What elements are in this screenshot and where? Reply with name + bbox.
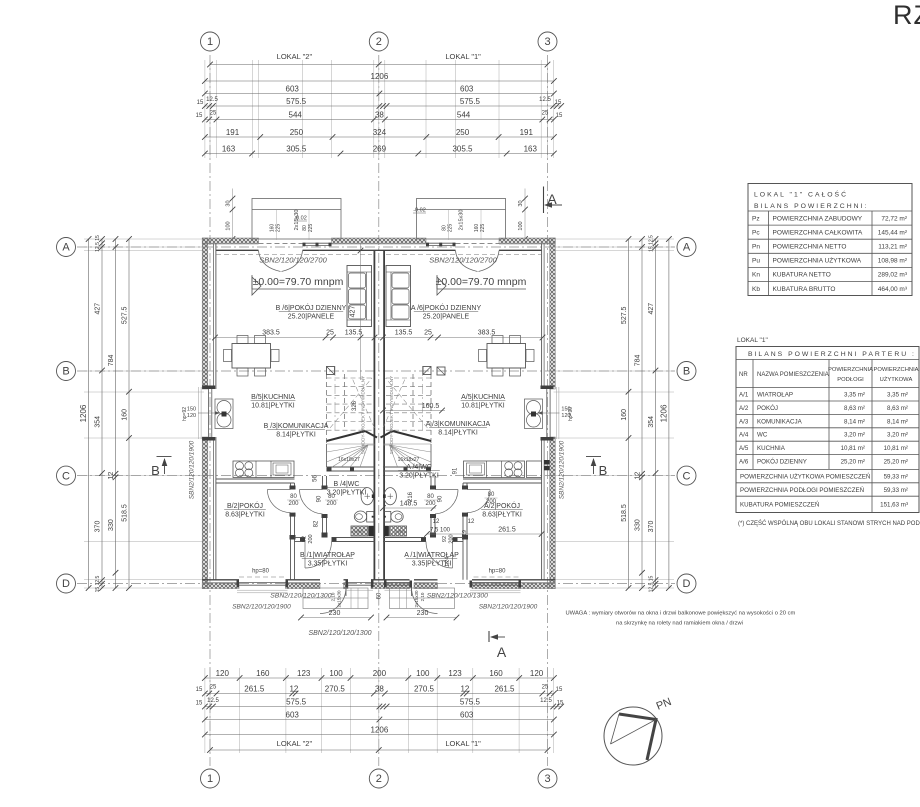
svg-text:8,63 m²: 8,63 m² <box>844 405 865 412</box>
svg-text:Kn: Kn <box>752 272 760 279</box>
svg-text:1206: 1206 <box>79 404 88 422</box>
svg-text:38: 38 <box>375 110 384 119</box>
svg-text:pralka: pralka <box>395 530 406 534</box>
svg-text:305.5: 305.5 <box>286 144 307 153</box>
svg-text:15: 15 <box>196 701 203 707</box>
svg-text:370: 370 <box>648 521 655 533</box>
svg-text:354: 354 <box>648 416 655 428</box>
svg-text:326: 326 <box>352 400 358 411</box>
svg-text:603: 603 <box>286 84 300 93</box>
svg-text:LOKAL "2": LOKAL "2" <box>277 52 313 61</box>
svg-text:305.5: 305.5 <box>452 144 473 153</box>
svg-text:POWIERZCHNIA NETTO: POWIERZCHNIA NETTO <box>773 244 847 251</box>
svg-text:10,81 m²: 10,81 m² <box>884 445 908 452</box>
svg-text:±0.00=79.70 mnpm: ±0.00=79.70 mnpm <box>253 276 344 288</box>
svg-text:270.5: 270.5 <box>414 684 435 693</box>
svg-text:A/1: A/1 <box>739 392 749 399</box>
svg-text:108,98 m²: 108,98 m² <box>878 258 908 265</box>
svg-text:POWIERZCHNIA: POWIERZCHNIA <box>828 367 873 373</box>
svg-text:160: 160 <box>256 669 270 678</box>
svg-text:270.5: 270.5 <box>325 684 346 693</box>
svg-text:A/5: A/5 <box>739 445 749 452</box>
svg-text:80: 80 <box>427 494 434 500</box>
svg-text:80: 80 <box>328 494 335 500</box>
svg-text:80: 80 <box>488 492 495 498</box>
svg-text:1: 1 <box>207 36 213 48</box>
svg-text:12: 12 <box>289 684 298 693</box>
svg-text:200: 200 <box>308 534 314 543</box>
svg-text:B: B <box>683 366 690 378</box>
svg-text:KOMUNIKACJA: KOMUNIKACJA <box>757 418 803 425</box>
svg-text:15: 15 <box>197 100 204 106</box>
svg-text:A: A <box>62 242 70 254</box>
svg-text:15: 15 <box>557 701 564 707</box>
svg-text:575.5: 575.5 <box>286 97 307 106</box>
svg-text:518.5: 518.5 <box>621 504 628 522</box>
svg-text:Pc: Pc <box>752 229 760 236</box>
svg-text:330: 330 <box>635 519 642 531</box>
svg-text:12.5: 12.5 <box>206 97 218 103</box>
svg-text:163: 163 <box>222 144 236 153</box>
svg-text:15: 15 <box>196 687 203 693</box>
svg-text:B: B <box>599 463 608 478</box>
svg-text:216: 216 <box>408 491 414 502</box>
svg-text:8.14|PŁYTKI: 8.14|PŁYTKI <box>276 432 316 439</box>
svg-text:A/5|KUCHNIA: A/5|KUCHNIA <box>461 394 505 401</box>
svg-text:NAZWA POMIESZCZENIA: NAZWA POMIESZCZENIA <box>757 372 829 378</box>
svg-text:hp=90: hp=90 <box>568 407 574 421</box>
svg-text:160: 160 <box>621 409 628 421</box>
svg-text:30: 30 <box>226 200 232 206</box>
svg-text:15 12.5: 15 12.5 <box>649 235 655 252</box>
svg-text:200: 200 <box>486 499 497 505</box>
svg-text:135.5: 135.5 <box>395 330 413 337</box>
svg-text:464,00 m³: 464,00 m³ <box>878 286 908 293</box>
svg-text:2x15x30: 2x15x30 <box>337 590 342 608</box>
svg-text:151,63 m³: 151,63 m³ <box>880 502 908 509</box>
svg-text:200: 200 <box>449 534 455 543</box>
svg-text:82: 82 <box>314 520 320 527</box>
svg-text:SBN2/120/120/1900: SBN2/120/120/1900 <box>479 604 538 611</box>
svg-text:25: 25 <box>542 111 549 117</box>
svg-text:100: 100 <box>518 221 524 230</box>
svg-text:100: 100 <box>416 669 430 678</box>
svg-text:Pu: Pu <box>752 258 760 265</box>
svg-text:2,10: 2,10 <box>331 592 336 601</box>
svg-text:12.5 15: 12.5 15 <box>95 235 101 252</box>
svg-text:A/3: A/3 <box>739 418 749 425</box>
svg-text:90: 90 <box>317 495 323 502</box>
svg-text:30: 30 <box>518 200 524 206</box>
svg-text:KUBATURA BRUTTO: KUBATURA BRUTTO <box>773 286 836 293</box>
svg-text:16x18x27: 16x18x27 <box>398 457 420 463</box>
svg-text:120: 120 <box>216 669 230 678</box>
svg-text:25: 25 <box>424 330 432 337</box>
svg-text:603: 603 <box>460 84 474 93</box>
svg-text:POWIERZCHNIA UŻYTKOWA POMIESZC: POWIERZCHNIA UŻYTKOWA POMIESZCZEŃ <box>740 474 870 481</box>
svg-text:BILANS POWIERZCHNI:: BILANS POWIERZCHNI: <box>754 203 868 210</box>
svg-text:25: 25 <box>210 685 217 691</box>
svg-text:SBN2/120/120/1300: SBN2/120/120/1300 <box>308 630 371 637</box>
svg-text:15: 15 <box>196 113 203 119</box>
svg-text:113,21 m²: 113,21 m² <box>878 244 908 251</box>
svg-text:200: 200 <box>373 669 387 678</box>
svg-text:2: 2 <box>376 36 382 48</box>
svg-text:3,35 m²: 3,35 m² <box>844 392 865 399</box>
svg-text:pralka: pralka <box>352 530 363 534</box>
svg-text:160: 160 <box>122 409 129 421</box>
svg-text:B /6|POKÓJ DZIENNY: B /6|POKÓJ DZIENNY <box>276 303 347 312</box>
svg-text:92: 92 <box>302 536 308 542</box>
svg-text:(*) CZĘŚĆ WSPÓLNĄ OBU LOKALI S: (*) CZĘŚĆ WSPÓLNĄ OBU LOKALI STANOWI STR… <box>738 519 920 527</box>
svg-text:SBN2/120/120/1900: SBN2/120/120/1900 <box>189 440 196 499</box>
svg-text:±0.00=79.70 mnpm: ±0.00=79.70 mnpm <box>436 276 527 288</box>
svg-text:25: 25 <box>326 330 334 337</box>
svg-text:191: 191 <box>520 128 534 137</box>
svg-text:16x18x27: 16x18x27 <box>338 457 360 463</box>
svg-text:SBN2/120/120/1300: SBN2/120/120/1300 <box>427 593 488 600</box>
svg-text:269: 269 <box>373 144 387 153</box>
svg-text:POWIERZCHNIA UŻYTKOWA: POWIERZCHNIA UŻYTKOWA <box>773 256 862 265</box>
svg-text:10.81|PŁYTKI: 10.81|PŁYTKI <box>251 403 295 410</box>
svg-text:7,5 100: 7,5 100 <box>430 528 451 534</box>
svg-text:383.5: 383.5 <box>478 330 496 337</box>
svg-text:C: C <box>62 470 70 482</box>
svg-text:25.20|PANELE: 25.20|PANELE <box>423 314 470 321</box>
svg-text:200: 200 <box>288 501 299 507</box>
svg-text:A /3|KOMUNIKACJA: A /3|KOMUNIKACJA <box>426 421 491 428</box>
svg-text:POWIERZCHNIA CAŁKOWITA: POWIERZCHNIA CAŁKOWITA <box>773 229 863 236</box>
svg-text:POWIERZCHNIA ZABUDOWY: POWIERZCHNIA ZABUDOWY <box>773 215 863 222</box>
svg-text:SCHODY-PROJEKT INDYWIDUALNY: SCHODY-PROJEKT INDYWIDUALNY <box>361 376 366 454</box>
svg-text:A /1|WIATROŁAP: A /1|WIATROŁAP <box>404 552 459 559</box>
svg-text:1,24: 1,24 <box>445 557 451 568</box>
svg-text:123: 123 <box>297 669 311 678</box>
svg-text:100: 100 <box>329 669 343 678</box>
svg-text:544: 544 <box>289 110 303 119</box>
svg-text:B /3|KOMUNIKACJA: B /3|KOMUNIKACJA <box>264 423 329 430</box>
svg-text:261.5: 261.5 <box>494 684 515 693</box>
svg-text:1206: 1206 <box>371 72 389 81</box>
svg-text:91: 91 <box>453 467 459 474</box>
svg-text:LOKAL "1": LOKAL "1" <box>737 337 768 344</box>
svg-text:19: 19 <box>462 530 468 536</box>
svg-text:B /4|WC: B /4|WC <box>334 481 360 488</box>
svg-text:784: 784 <box>108 354 115 366</box>
svg-text:2,10: 2,10 <box>420 592 425 601</box>
svg-text:72,72 m²: 72,72 m² <box>881 215 907 222</box>
svg-text:B /1|WIATROŁAP: B /1|WIATROŁAP <box>300 552 355 559</box>
svg-text:RZ: RZ <box>893 0 920 30</box>
svg-text:100: 100 <box>226 221 232 230</box>
svg-text:160.5: 160.5 <box>422 403 440 410</box>
svg-text:230: 230 <box>417 610 429 617</box>
svg-text:603: 603 <box>286 710 300 719</box>
svg-text:SBN2/120/120/1900: SBN2/120/120/1900 <box>559 440 566 499</box>
svg-text:SBN2/120/120/2700: SBN2/120/120/2700 <box>429 256 497 265</box>
svg-text:25,20 m²: 25,20 m² <box>841 459 865 466</box>
svg-text:289,02 m³: 289,02 m³ <box>878 272 908 279</box>
svg-text:25: 25 <box>542 685 549 691</box>
svg-text:SBN2/120/120/1900: SBN2/120/120/1900 <box>232 604 291 611</box>
svg-text:LOKAL "2": LOKAL "2" <box>277 739 313 748</box>
svg-text:NR: NR <box>739 372 748 378</box>
svg-text:hp=80: hp=80 <box>252 569 270 575</box>
svg-text:15: 15 <box>556 687 563 693</box>
svg-text:383.5: 383.5 <box>262 330 280 337</box>
svg-text:2x15x30: 2x15x30 <box>414 590 419 608</box>
svg-text:80: 80 <box>290 494 297 500</box>
svg-text:784: 784 <box>635 354 642 366</box>
svg-text:12.5: 12.5 <box>540 698 552 704</box>
svg-text:KUBATURA NETTO: KUBATURA NETTO <box>773 272 831 279</box>
svg-text:12.5: 12.5 <box>207 698 219 704</box>
svg-text:-0.02: -0.02 <box>294 216 307 222</box>
svg-text:145,44 m²: 145,44 m² <box>878 229 908 236</box>
svg-text:B: B <box>151 463 160 478</box>
svg-text:D: D <box>62 578 70 590</box>
svg-text:Pz: Pz <box>752 215 760 222</box>
svg-text:na skrzynkę na rolety nad rami: na skrzynkę na rolety nad ramiakiem okna… <box>616 621 743 627</box>
svg-text:370: 370 <box>95 521 102 533</box>
svg-text:200: 200 <box>425 501 436 507</box>
svg-text:15: 15 <box>556 113 563 119</box>
svg-text:354: 354 <box>95 416 102 428</box>
svg-text:D: D <box>683 578 691 590</box>
svg-text:25.20|PANELE: 25.20|PANELE <box>288 314 335 321</box>
svg-text:544: 544 <box>457 110 471 119</box>
svg-text:LOKAL "1" CAŁOŚĆ: LOKAL "1" CAŁOŚĆ <box>754 190 848 199</box>
svg-text:12: 12 <box>460 684 469 693</box>
svg-text:A /6|POKÓJ DZIENNY: A /6|POKÓJ DZIENNY <box>411 303 482 312</box>
svg-text:59,33 m²: 59,33 m² <box>884 487 908 494</box>
svg-text:575.5: 575.5 <box>460 697 481 706</box>
svg-text:UŻYTKOWA: UŻYTKOWA <box>880 376 913 383</box>
svg-text:261.5: 261.5 <box>244 684 265 693</box>
svg-text:PODŁOGI: PODŁOGI <box>837 377 864 383</box>
svg-text:SCHODY-PROJEKT INDYWIDUALNY: SCHODY-PROJEKT INDYWIDUALNY <box>389 376 394 454</box>
svg-text:-0.02: -0.02 <box>413 208 426 214</box>
svg-text:A/6: A/6 <box>739 459 749 466</box>
svg-text:B: B <box>62 366 69 378</box>
svg-text:POKÓJ DZIENNY: POKÓJ DZIENNY <box>757 459 807 466</box>
svg-text:527.5: 527.5 <box>621 306 628 324</box>
svg-text:WIATROŁAP: WIATROŁAP <box>757 392 793 399</box>
svg-text:8,63 m²: 8,63 m² <box>887 405 908 412</box>
svg-text:POWIERZCHNIA PODŁOGI POMIESZCZ: POWIERZCHNIA PODŁOGI POMIESZCZEŃ <box>740 487 864 494</box>
svg-text:1: 1 <box>207 773 213 785</box>
svg-text:8.63|PŁYTKI: 8.63|PŁYTKI <box>482 512 522 519</box>
svg-text:12: 12 <box>433 519 440 525</box>
svg-text:330: 330 <box>108 519 115 531</box>
svg-text:8,14 m²: 8,14 m² <box>844 418 865 425</box>
svg-text:KUBATURA POMIESZCZEŃ: KUBATURA POMIESZCZEŃ <box>740 502 819 509</box>
svg-text:A: A <box>683 242 691 254</box>
svg-text:WC: WC <box>757 432 768 439</box>
svg-text:575.5: 575.5 <box>286 697 307 706</box>
svg-text:60: 60 <box>377 592 383 599</box>
svg-text:59,33 m²: 59,33 m² <box>884 474 908 481</box>
svg-text:2: 2 <box>376 773 382 785</box>
svg-text:527.5: 527.5 <box>122 306 129 324</box>
svg-text:12: 12 <box>635 472 642 480</box>
svg-text:3,35 m²: 3,35 m² <box>887 392 908 399</box>
svg-text:56: 56 <box>313 475 319 482</box>
svg-text:Kb: Kb <box>752 286 760 293</box>
svg-text:8,14 m²: 8,14 m² <box>887 418 908 425</box>
svg-text:603: 603 <box>460 710 474 719</box>
svg-text:B/5|KUCHNIA: B/5|KUCHNIA <box>251 394 295 401</box>
svg-text:120: 120 <box>187 413 196 419</box>
svg-text:135.5: 135.5 <box>345 330 363 337</box>
svg-text:324: 324 <box>373 128 387 137</box>
svg-text:SBN2/120/120/1300: SBN2/120/120/1300 <box>270 593 331 600</box>
svg-text:KUCHNIA: KUCHNIA <box>757 445 786 452</box>
svg-text:A /4|WC: A /4|WC <box>406 464 432 471</box>
svg-text:C: C <box>683 470 691 482</box>
svg-text:1206: 1206 <box>371 725 389 734</box>
svg-text:250: 250 <box>290 128 304 137</box>
svg-text:3.35|PŁYTKI: 3.35|PŁYTKI <box>308 561 348 568</box>
svg-text:15 12.5: 15 12.5 <box>95 575 101 592</box>
svg-text:3: 3 <box>544 36 550 48</box>
svg-text:12.5: 12.5 <box>539 97 551 103</box>
svg-text:B/2|POKÓJ: B/2|POKÓJ <box>227 501 263 510</box>
svg-text:LOKAL "1": LOKAL "1" <box>445 52 481 61</box>
svg-text:427: 427 <box>350 306 357 318</box>
svg-text:3,20 m²: 3,20 m² <box>844 432 865 439</box>
svg-text:10.81|PŁYTKI: 10.81|PŁYTKI <box>461 403 505 410</box>
svg-text:2x15x30: 2x15x30 <box>459 210 465 231</box>
svg-text:25: 25 <box>210 111 217 117</box>
svg-text:120: 120 <box>530 669 544 678</box>
svg-text:15: 15 <box>555 100 562 106</box>
svg-text:BILANS POWIERZCHNI PARTERU :: BILANS POWIERZCHNI PARTERU : <box>748 351 916 358</box>
svg-text:UWAGA : wymiary otworów na okn: UWAGA : wymiary otworów na okna i drzwi … <box>566 611 796 617</box>
svg-text:Pn: Pn <box>752 244 760 251</box>
svg-text:191: 191 <box>226 128 240 137</box>
svg-text:POWIERZCHNIA: POWIERZCHNIA <box>873 367 918 373</box>
svg-text:123: 123 <box>448 669 462 678</box>
svg-text:427: 427 <box>95 303 102 315</box>
svg-text:1206: 1206 <box>659 404 668 422</box>
svg-text:92: 92 <box>442 536 448 542</box>
svg-text:518.5: 518.5 <box>122 504 129 522</box>
svg-text:3: 3 <box>544 773 550 785</box>
svg-text:12.5 15: 12.5 15 <box>649 575 655 592</box>
svg-text:8.63|PŁYTKI: 8.63|PŁYTKI <box>225 512 265 519</box>
svg-text:hp=92: hp=92 <box>182 407 188 421</box>
svg-text:A: A <box>497 644 507 660</box>
svg-text:150: 150 <box>187 407 196 413</box>
svg-text:12: 12 <box>468 519 475 525</box>
svg-text:A: A <box>547 191 557 207</box>
svg-text:230: 230 <box>329 610 341 617</box>
svg-text:POKÓJ: POKÓJ <box>757 405 778 412</box>
svg-text:hp=80: hp=80 <box>489 569 507 575</box>
svg-text:427: 427 <box>648 303 655 315</box>
svg-text:10,81 m²: 10,81 m² <box>841 445 865 452</box>
svg-text:200: 200 <box>326 501 337 507</box>
svg-text:25,20 m²: 25,20 m² <box>884 459 908 466</box>
svg-text:LOKAL "1": LOKAL "1" <box>445 739 481 748</box>
svg-text:250: 250 <box>456 128 470 137</box>
svg-text:3.20|PŁYTKI: 3.20|PŁYTKI <box>399 473 439 480</box>
svg-text:3,20 m²: 3,20 m² <box>887 432 908 439</box>
svg-text:160: 160 <box>489 669 503 678</box>
svg-text:A/4: A/4 <box>739 432 749 439</box>
svg-text:A/2: A/2 <box>739 405 749 412</box>
svg-text:261.5: 261.5 <box>498 527 516 534</box>
svg-text:8.14|PŁYTKI: 8.14|PŁYTKI <box>438 430 478 437</box>
svg-text:12: 12 <box>108 472 115 480</box>
svg-text:163: 163 <box>524 144 538 153</box>
svg-text:90: 90 <box>438 495 444 502</box>
svg-text:38: 38 <box>375 684 384 693</box>
svg-text:SBN2/120/120/2700: SBN2/120/120/2700 <box>259 256 327 265</box>
svg-text:575.5: 575.5 <box>460 97 481 106</box>
